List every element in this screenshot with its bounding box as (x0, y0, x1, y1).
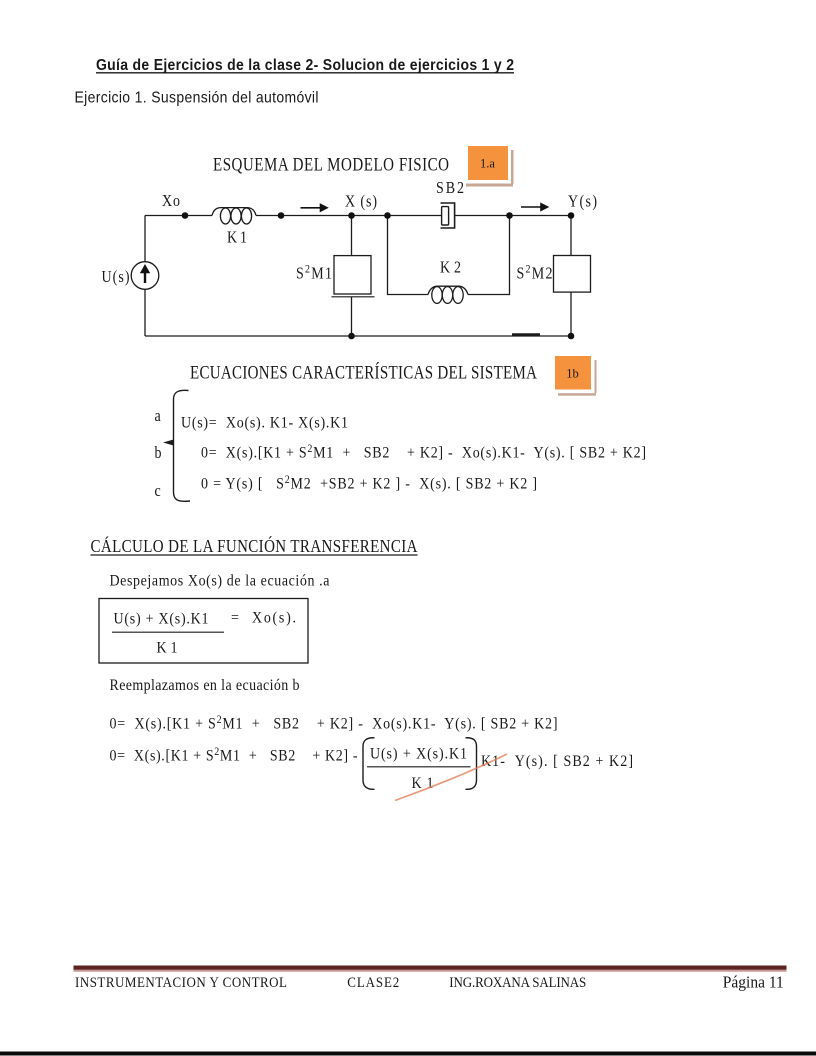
svg-text:S2M1: S2M1 (296, 263, 332, 283)
svg-text:Reemplazamos en la ecuación b: Reemplazamos en la ecuación b (110, 677, 300, 694)
svg-text:Xo: Xo (162, 192, 180, 210)
svg-text:c: c (155, 482, 161, 500)
svg-text:U(s) + X(s).K1: U(s) + X(s).K1 (114, 611, 209, 628)
svg-text:1.a: 1.a (480, 157, 495, 171)
svg-text:=: = (231, 610, 239, 627)
svg-text:ESQUEMA DEL MODELO FISICO: ESQUEMA DEL MODELO FISICO (213, 154, 449, 175)
svg-text:SB2: SB2 (436, 179, 464, 197)
svg-text:Guía de Ejercicios de la clase: Guía de Ejercicios de la clase 2- Soluci… (96, 56, 514, 74)
svg-text:0 = Y(s) [ S2M2 +SB2 + K2 ]: 0 = Y(s) [ S2M2 +SB2 + K2 ] - X(s). [ SB… (201, 473, 537, 493)
svg-text:Ejercicio 1. Suspensión del au: Ejercicio 1. Suspensión del automóvil (75, 89, 319, 107)
svg-text:Despejamos Xo(s) de la ecuació: Despejamos Xo(s) de la ecuación .a (110, 573, 330, 590)
svg-text:b: b (155, 444, 162, 462)
svg-text:ECUACIONES CARACTERÍSTICAS DEL: ECUACIONES CARACTERÍSTICAS DEL SISTEMA (190, 362, 538, 383)
svg-text:ING.ROXANA SALINAS: ING.ROXANA SALINAS (449, 974, 586, 990)
svg-text:U(s)= Xo(s). K1- X(s).K1: U(s)= Xo(s). K1- X(s).K1 (181, 414, 348, 431)
svg-text:CÁLCULO DE LA FUNCIÓN TRANSFER: CÁLCULO DE LA FUNCIÓN TRANSFERENCIA (91, 536, 418, 557)
svg-text:U(s): U(s) (102, 268, 130, 286)
svg-text:0= X(s).[K1 + S2M1 + SB2: 0= X(s).[K1 + S2M1 + SB2 + K2] - Xo(s).K… (110, 713, 558, 733)
svg-text:Xo(s).: Xo(s). (252, 610, 296, 627)
svg-text:Página 11: Página 11 (723, 972, 784, 992)
svg-text:0= X(s).[K1 + S2M1 + SB2: 0= X(s).[K1 + S2M1 + SB2 + K2] - (110, 745, 358, 765)
svg-text:INSTRUMENTACION Y CONTROL: INSTRUMENTACION Y CONTROL (75, 974, 287, 990)
svg-text:a: a (155, 407, 161, 425)
svg-text:S2M2: S2M2 (517, 263, 553, 283)
svg-text:0= X(s).[K1 + S2M1 + SB2: 0= X(s).[K1 + S2M1 + SB2 + K2] - Xo(s).K… (201, 442, 646, 462)
svg-text:Y(s): Y(s) (568, 192, 597, 210)
svg-text:1b: 1b (566, 367, 579, 381)
svg-text:CLASE2: CLASE2 (347, 974, 399, 990)
svg-text:U(s) + X(s).K1: U(s) + X(s).K1 (370, 746, 467, 763)
svg-text:K1: K1 (227, 228, 247, 246)
svg-text:K2: K2 (440, 258, 461, 276)
svg-text:K1: K1 (157, 640, 178, 657)
svg-text:X (s): X (s) (345, 192, 377, 210)
